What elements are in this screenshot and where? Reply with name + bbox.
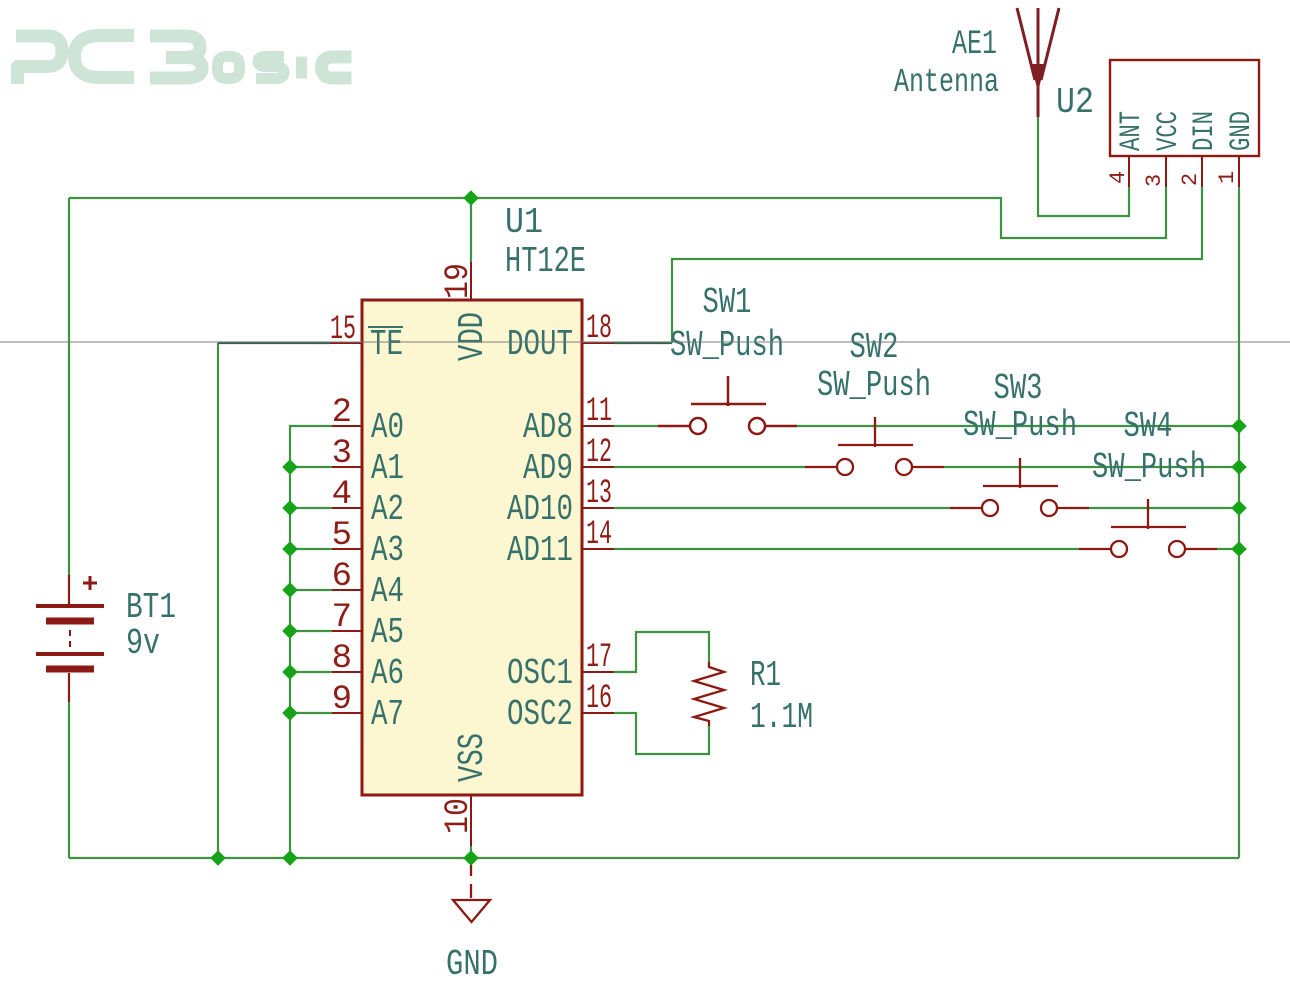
svg-text:2: 2 — [1178, 173, 1203, 186]
wire U2 GND right bus — [1238, 187, 1240, 858]
ground symbol GND — [453, 860, 490, 922]
svg-text:GND: GND — [446, 944, 498, 983]
svg-text:16: 16 — [586, 680, 612, 718]
svg-text:U1: U1 — [505, 202, 543, 243]
node VDD rail junction — [463, 190, 479, 206]
pin 7 A5 stub — [332, 630, 362, 632]
svg-text:SW2: SW2 — [850, 327, 899, 368]
node A4 junction — [282, 582, 298, 598]
svg-text:10: 10 — [440, 798, 478, 834]
svg-text:19: 19 — [440, 263, 478, 299]
node VSS/GND junction — [463, 850, 479, 866]
svg-text:A0: A0 — [371, 407, 404, 448]
wire AD9 to SW2 — [614, 466, 805, 468]
svg-text:SW3: SW3 — [994, 368, 1043, 409]
svg-text:17: 17 — [586, 639, 612, 677]
svg-text:DOUT: DOUT — [507, 324, 573, 365]
artifact gray line — [0, 341, 1290, 343]
svg-text:SW1: SW1 — [703, 282, 752, 323]
battery BT1 — [36, 575, 104, 702]
wire antenna — [1038, 117, 1129, 216]
svg-text:11: 11 — [586, 393, 612, 431]
svg-text:A4: A4 — [371, 571, 404, 612]
svg-text:SW_Push: SW_Push — [1092, 447, 1206, 488]
svg-text:1.1M: 1.1M — [750, 697, 813, 738]
node A6 junction — [282, 664, 298, 680]
wire OSC2 to R1 — [614, 713, 709, 754]
pin 11 AD8 stub — [582, 425, 614, 427]
wire SW3 to bus — [1089, 507, 1239, 509]
svg-text:BT1: BT1 — [126, 587, 176, 628]
node SW3 bus junction — [1231, 500, 1247, 516]
switch SW4 — [1079, 499, 1217, 557]
pin name labels U1 — [370, 324, 573, 735]
svg-text:VCC: VCC — [1152, 111, 1186, 151]
wire TE to ground — [217, 343, 219, 858]
node SW1 bus junction — [1231, 418, 1247, 434]
antenna AE1 — [1017, 8, 1059, 117]
wire A5 — [290, 630, 332, 632]
node A5 junction — [282, 623, 298, 639]
wire battery bottom — [68, 702, 70, 858]
wire A1 — [290, 466, 332, 468]
pin 4 A2 stub — [332, 507, 362, 509]
svg-text:4: 4 — [332, 476, 352, 514]
pin 12 AD9 stub — [582, 466, 614, 468]
node A1 junction — [282, 459, 298, 475]
wire A7 — [290, 712, 332, 714]
svg-text:A2: A2 — [371, 489, 404, 530]
switch SW3 — [950, 458, 1089, 516]
svg-text:A3: A3 — [371, 530, 404, 571]
svg-text:U2: U2 — [1056, 82, 1094, 123]
wire A3 — [290, 548, 332, 550]
svg-text:8: 8 — [332, 640, 352, 678]
U2 pin names — [1115, 111, 1259, 151]
wire VSS — [470, 846, 472, 858]
pin 17 OSC1 stub — [582, 671, 614, 673]
U2 pin 1 GND stub — [1238, 156, 1240, 187]
pin 5 A3 stub — [332, 548, 362, 550]
wire SW2 to bus — [944, 466, 1239, 468]
wire SW4 to bus — [1217, 548, 1239, 550]
svg-text:R1: R1 — [750, 655, 781, 696]
U2 pin numbers — [1106, 171, 1240, 187]
svg-text:4: 4 — [1106, 171, 1131, 184]
node A2 junction — [282, 500, 298, 516]
pin 2 A0 stub — [332, 425, 362, 427]
switch SW2 — [805, 417, 944, 475]
wire GND bottom rail — [69, 857, 1239, 859]
PCBasic logo — [16, 36, 352, 85]
svg-text:HT12E: HT12E — [505, 241, 586, 282]
node TE/GND junction — [210, 850, 226, 866]
pin 9 A7 stub — [332, 712, 362, 714]
pin 10 VSS stub — [470, 795, 472, 846]
svg-text:OSC1: OSC1 — [507, 653, 573, 694]
wire VCC top rail — [69, 187, 1166, 238]
svg-text:VSS: VSS — [452, 733, 493, 782]
svg-text:AD9: AD9 — [523, 448, 573, 489]
wire DOUT to DIN — [614, 342, 672, 344]
svg-text:3: 3 — [1142, 174, 1167, 187]
resistor R1 — [694, 662, 724, 726]
wire address bus A0-A7 — [290, 426, 332, 858]
svg-text:A5: A5 — [371, 612, 404, 653]
U1 chip body HT12E — [362, 300, 582, 795]
U2 pin 2 DIN stub — [1201, 156, 1203, 187]
wire AD10 to SW3 — [614, 507, 950, 509]
wire OSC1 to R1 — [614, 632, 709, 672]
pin numbers U1 — [330, 263, 612, 834]
svg-text:GND: GND — [1225, 111, 1259, 151]
node SW4 bus junction — [1231, 541, 1247, 557]
svg-text:9: 9 — [332, 681, 352, 719]
pin 13 AD10 stub — [582, 507, 614, 509]
node SW2 bus junction — [1231, 459, 1247, 475]
pin 14 AD11 stub — [582, 548, 614, 550]
U2 pin 3 VCC stub — [1165, 156, 1167, 187]
svg-text:15: 15 — [330, 311, 356, 349]
svg-text:3: 3 — [332, 435, 352, 473]
node A7 junction — [282, 705, 298, 721]
svg-text:TE: TE — [370, 324, 403, 365]
svg-text:ANT: ANT — [1115, 111, 1149, 151]
node A3 junction — [282, 541, 298, 557]
U1 pin stubs — [330, 156, 1239, 846]
U2 pin 4 ANT stub — [1128, 156, 1130, 187]
wire SW1 to bus — [797, 425, 1239, 427]
svg-text:6: 6 — [332, 558, 352, 596]
TE overline — [368, 326, 403, 328]
pin 3 A1 stub — [332, 466, 362, 468]
svg-text:SW_Push: SW_Push — [670, 325, 784, 366]
svg-text:OSC2: OSC2 — [507, 694, 573, 735]
svg-text:2: 2 — [332, 394, 352, 432]
svg-text:A7: A7 — [371, 694, 404, 735]
svg-text:13: 13 — [586, 475, 612, 513]
pin 8 A6 stub — [332, 671, 362, 673]
wire A2 — [290, 507, 332, 509]
svg-text:5: 5 — [332, 517, 352, 555]
svg-text:AD10: AD10 — [507, 489, 573, 530]
pin 15 TE stub — [330, 342, 362, 344]
svg-text:AE1: AE1 — [952, 26, 997, 64]
wire VDD — [470, 198, 472, 262]
wire battery top — [68, 198, 70, 575]
node A-bus/GND junction — [282, 850, 298, 866]
svg-text:14: 14 — [586, 516, 612, 554]
svg-text:Antenna: Antenna — [894, 64, 999, 101]
pin 16 OSC2 stub — [582, 712, 614, 714]
pin 19 VDD stub — [470, 262, 472, 300]
wire A6 — [290, 671, 332, 673]
svg-text:9v: 9v — [126, 623, 160, 664]
svg-text:SW_Push: SW_Push — [817, 365, 931, 406]
svg-text:AD11: AD11 — [507, 530, 573, 571]
svg-text:AD8: AD8 — [523, 407, 573, 448]
wire AD8 to SW1 — [614, 425, 658, 427]
wire AD11 to SW4 — [614, 548, 1079, 550]
switch SW1 — [658, 376, 797, 434]
svg-text:12: 12 — [586, 434, 612, 472]
wire A4 — [290, 589, 332, 591]
svg-text:A6: A6 — [371, 653, 404, 694]
pin 6 A4 stub — [332, 589, 362, 591]
U2 chip body — [1110, 60, 1259, 156]
svg-text:SW4: SW4 — [1124, 406, 1173, 447]
svg-text:SW_Push: SW_Push — [963, 405, 1077, 446]
svg-text:A1: A1 — [371, 448, 404, 489]
svg-text:7: 7 — [332, 599, 352, 637]
svg-text:1: 1 — [1215, 171, 1240, 184]
svg-text:VDD: VDD — [452, 312, 493, 361]
pin 18 DOUT stub — [582, 342, 614, 344]
svg-text:DIN: DIN — [1188, 111, 1222, 151]
